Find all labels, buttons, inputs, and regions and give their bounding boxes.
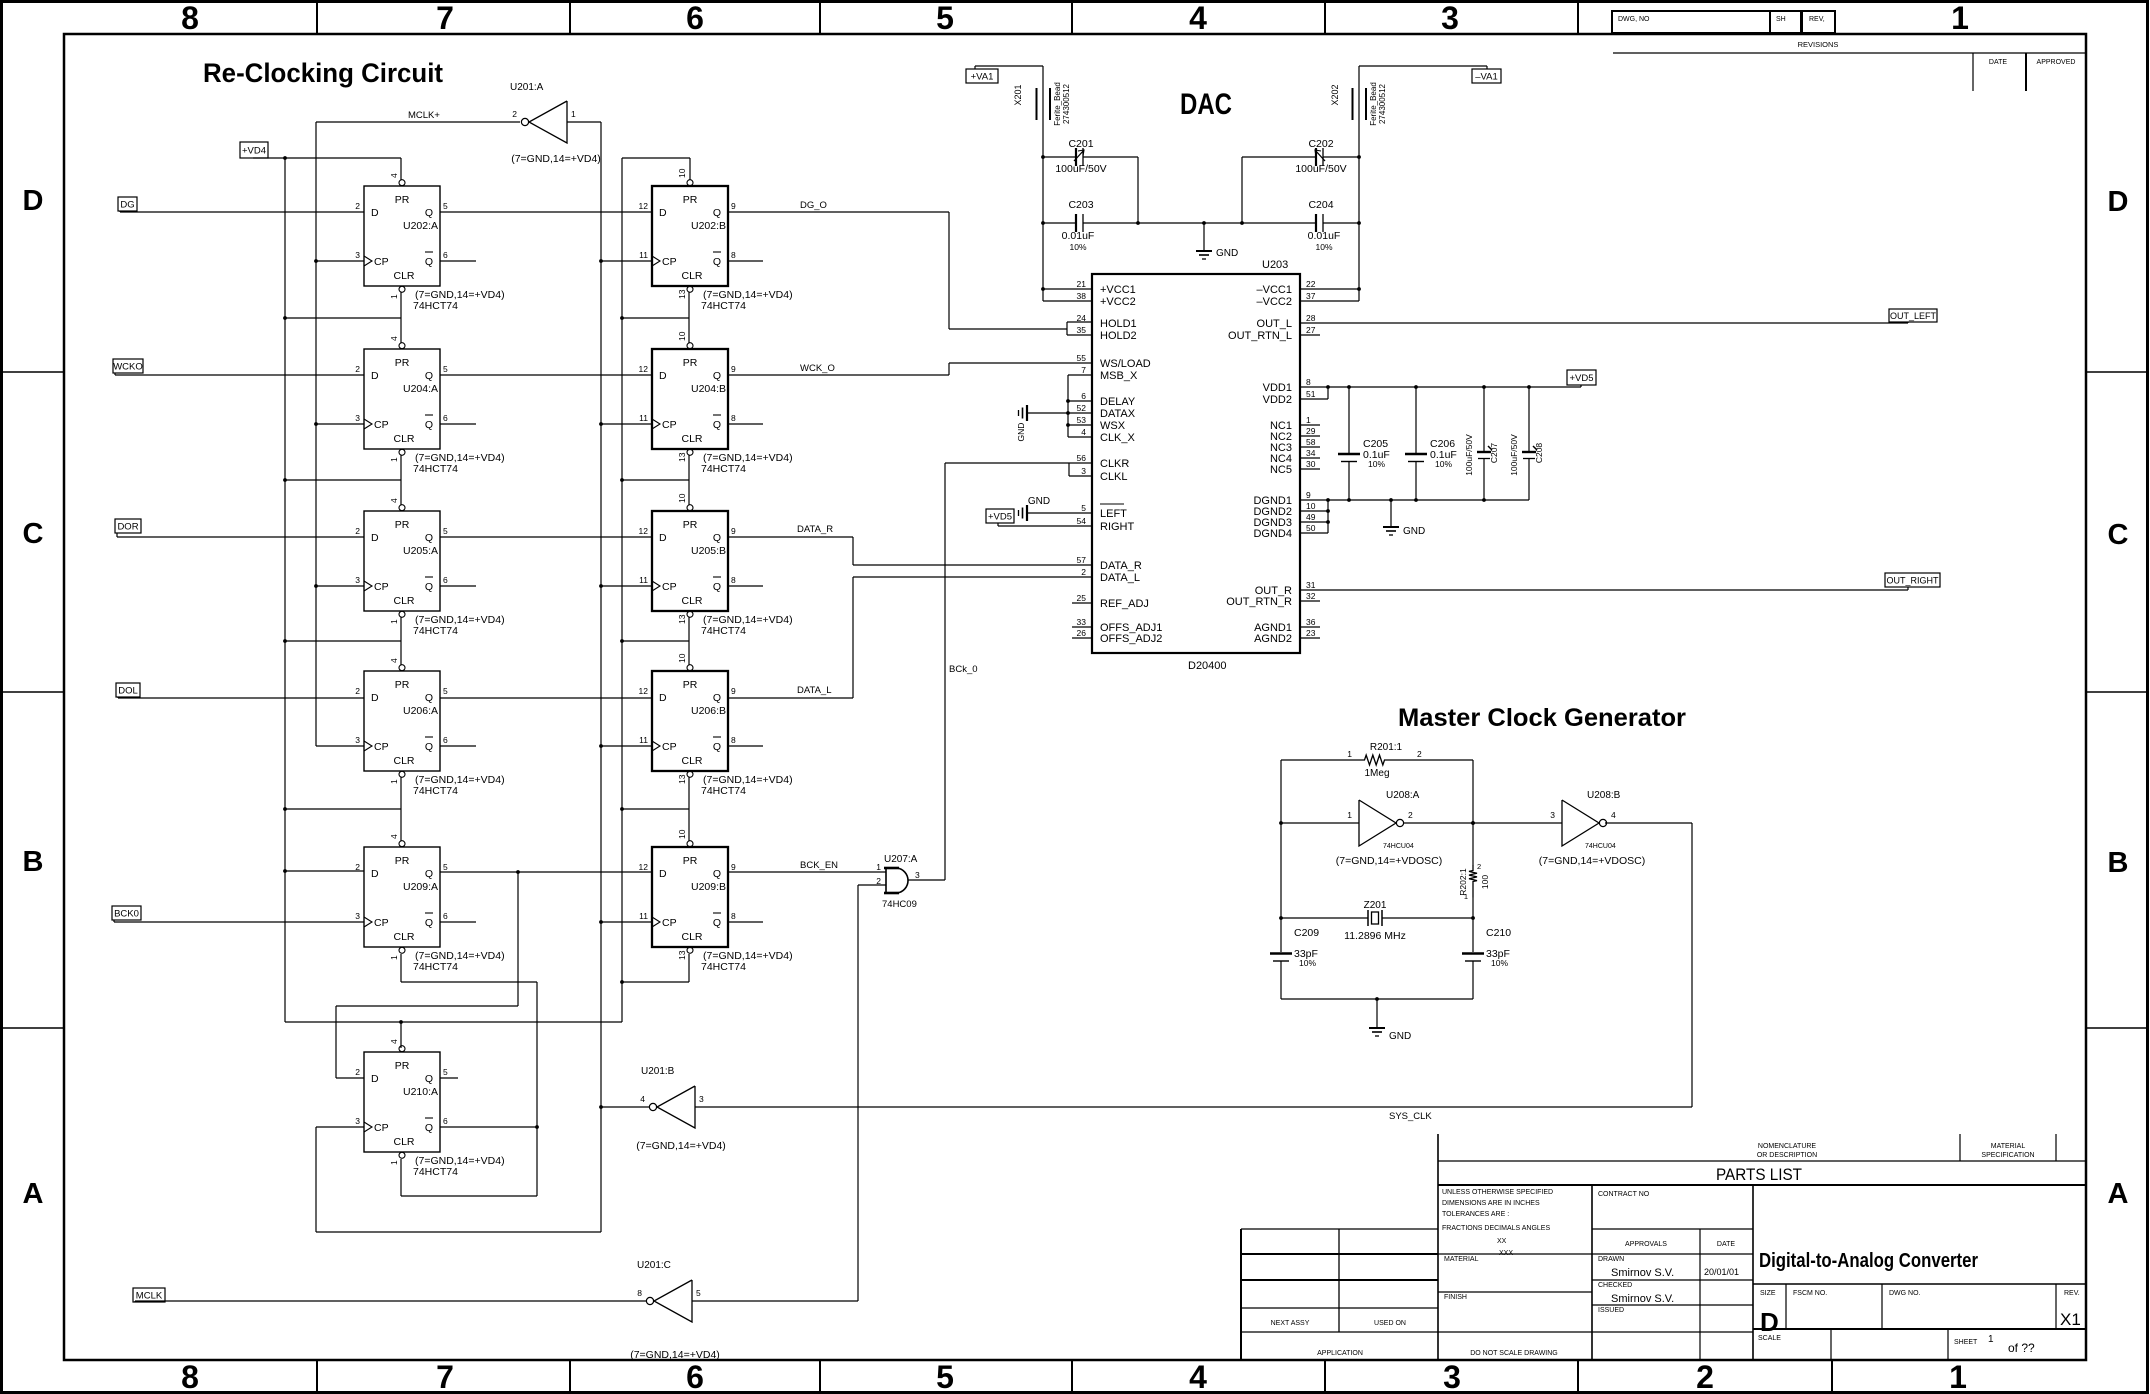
wire U208:B input <box>1473 822 1562 824</box>
svg-text:U201:C: U201:C <box>637 1260 671 1271</box>
svg-text:Q: Q <box>713 868 721 880</box>
zone numbers top <box>181 0 1969 36</box>
ground symbol DAC supply <box>1196 221 1238 259</box>
svg-text:X201: X201 <box>1013 84 1023 105</box>
svg-text:Q: Q <box>425 419 433 431</box>
svg-text:6: 6 <box>443 735 448 745</box>
svg-text:B: B <box>2108 847 2129 879</box>
svg-text:CLR: CLR <box>393 270 414 282</box>
svg-text:U202:B: U202:B <box>691 220 726 232</box>
svg-text:U202:A: U202:A <box>403 220 438 232</box>
svg-text:U210:A: U210:A <box>403 1086 438 1098</box>
svg-text:D: D <box>371 1073 379 1085</box>
svg-text:WS/LOAD: WS/LOAD <box>1100 358 1151 370</box>
svg-text:2: 2 <box>1477 862 1481 871</box>
svg-text:2: 2 <box>355 364 360 374</box>
net name DG_O <box>800 200 827 211</box>
svg-text:HOLD2: HOLD2 <box>1100 330 1137 342</box>
svg-text:11: 11 <box>639 911 648 921</box>
wire R202 to crystal row <box>1471 821 1475 952</box>
svg-text:GND: GND <box>1216 248 1238 259</box>
svg-text:74HCU04: 74HCU04 <box>1383 843 1414 850</box>
svg-text:MCLK: MCLK <box>136 1290 163 1301</box>
resistor R202:1 100 <box>1458 862 1490 901</box>
wire oscillator top loop <box>1281 760 1473 952</box>
flip-flop U202:A 74HCT74 <box>355 173 504 312</box>
svg-text:1Meg: 1Meg <box>1364 768 1389 779</box>
stubs Q-bar column A <box>440 261 476 922</box>
svg-text:Q: Q <box>713 692 721 704</box>
svg-text:10: 10 <box>677 653 687 663</box>
svg-text:Q: Q <box>425 741 433 753</box>
svg-text:Q: Q <box>425 1122 433 1134</box>
DAC U203 D20400 <box>1077 259 1316 672</box>
svg-text:8: 8 <box>637 1288 642 1298</box>
svg-text:Re-Clocking Circuit: Re-Clocking Circuit <box>203 58 443 88</box>
svg-text:PR: PR <box>395 519 410 531</box>
svg-text:DG_O: DG_O <box>800 200 827 211</box>
svg-text:D: D <box>1760 1307 1779 1337</box>
svg-text:5: 5 <box>443 364 448 374</box>
svg-text:Master Clock Generator: Master Clock Generator <box>1398 704 1686 732</box>
svg-text:1: 1 <box>1306 415 1311 425</box>
svg-text:11.2896 MHz: 11.2896 MHz <box>1344 930 1406 942</box>
wire DOR input <box>117 533 364 537</box>
svg-text:13: 13 <box>677 950 687 960</box>
svg-text:5: 5 <box>443 686 448 696</box>
wire PR/CLR chain column B <box>620 158 690 1022</box>
capacitor C203 0.01uF <box>1043 199 1204 252</box>
svg-text:Q: Q <box>425 868 433 880</box>
svg-text:11: 11 <box>639 413 648 423</box>
svg-text:Q: Q <box>425 207 433 219</box>
svg-text:PR: PR <box>683 194 698 206</box>
svg-text:SCALE: SCALE <box>1758 1335 1781 1342</box>
svg-text:5: 5 <box>1081 503 1086 513</box>
svg-text:CLR: CLR <box>393 931 414 943</box>
svg-text:(7=GND,14=+VD4): (7=GND,14=+VD4) <box>511 153 601 165</box>
svg-text:REV.: REV. <box>2064 1290 2080 1297</box>
svg-text:Q: Q <box>713 917 721 929</box>
wire U209:A Q feedback to U210:A D <box>336 872 518 1078</box>
svg-text:A: A <box>23 1178 44 1210</box>
net name MCLK+ <box>408 110 440 121</box>
svg-text:BCK_EN: BCK_EN <box>800 860 838 871</box>
svg-text:C209: C209 <box>1294 927 1319 939</box>
port DOL <box>116 683 140 697</box>
svg-text:DELAY: DELAY <box>1100 396 1136 408</box>
capacitor C207 100uF/50V <box>1464 387 1499 500</box>
power label +VD5 <box>1567 370 1596 385</box>
svg-text:D: D <box>2108 186 2129 218</box>
title Master Clock Generator <box>1398 704 1686 732</box>
svg-text:4: 4 <box>640 1094 645 1104</box>
svg-text:APPLICATION: APPLICATION <box>1317 1350 1363 1357</box>
svg-text:10%: 10% <box>1299 958 1316 968</box>
svg-text:100uF/50V: 100uF/50V <box>1464 434 1474 476</box>
svg-text:PR: PR <box>395 1060 410 1072</box>
svg-text:U203: U203 <box>1262 259 1288 271</box>
resistor R201:1 1Meg <box>1347 742 1422 779</box>
power label +VD4 <box>240 142 268 158</box>
svg-text:9: 9 <box>731 526 736 536</box>
wire oscillator bottom rail <box>1281 997 1473 1001</box>
svg-text:OR DESCRIPTION: OR DESCRIPTION <box>1757 1152 1817 1159</box>
svg-text:DAC: DAC <box>1180 88 1232 121</box>
svg-text:26: 26 <box>1077 628 1087 638</box>
svg-text:+VCC2: +VCC2 <box>1100 296 1136 308</box>
port WCKO <box>113 359 143 373</box>
svg-text:74HCT74: 74HCT74 <box>413 625 458 637</box>
wire U208:A output <box>1404 821 1475 825</box>
svg-text:U208:B: U208:B <box>1587 790 1621 801</box>
svg-text:(7=GND,14=+VDOSC): (7=GND,14=+VDOSC) <box>1336 855 1443 867</box>
svg-text:Z201: Z201 <box>1364 900 1387 911</box>
svg-text:21: 21 <box>1077 279 1087 289</box>
capacitor C204 0.01uF <box>1204 199 1359 252</box>
svg-text:100uF/50V: 100uF/50V <box>1295 163 1346 175</box>
svg-text:30: 30 <box>1306 459 1316 469</box>
svg-text:FINISH: FINISH <box>1444 1294 1467 1301</box>
svg-text:U206:A: U206:A <box>403 705 438 717</box>
svg-text:8: 8 <box>731 735 736 745</box>
svg-text:74HCT74: 74HCT74 <box>701 625 746 637</box>
svg-text:8: 8 <box>181 1359 199 1394</box>
svg-text:OFFS_ADJ2: OFFS_ADJ2 <box>1100 633 1162 645</box>
title Re-Clocking Circuit <box>203 58 443 88</box>
svg-text:ISSUED: ISSUED <box>1598 1307 1624 1314</box>
svg-text:DATE: DATE <box>1717 1241 1735 1248</box>
svg-text:CP: CP <box>374 917 389 929</box>
svg-text:2: 2 <box>1081 567 1086 577</box>
svg-text:4: 4 <box>389 173 399 178</box>
svg-text:7: 7 <box>436 1359 454 1394</box>
svg-text:8: 8 <box>731 413 736 423</box>
svg-text:74HCU04: 74HCU04 <box>1585 843 1616 850</box>
svg-text:2: 2 <box>1408 810 1413 820</box>
wire U207:A pin2 from U201:C <box>692 885 886 1301</box>
svg-text:74HCT74: 74HCT74 <box>413 1166 458 1178</box>
svg-text:PR: PR <box>683 519 698 531</box>
svg-text:3: 3 <box>1550 810 1555 820</box>
wire U208:A input <box>1279 821 1359 825</box>
svg-text:11: 11 <box>639 575 648 585</box>
svg-text:6: 6 <box>686 0 704 36</box>
port DOR <box>115 519 141 533</box>
zone ticks right <box>2086 372 2148 1028</box>
svg-text:Q: Q <box>425 370 433 382</box>
svg-text:38: 38 <box>1077 291 1087 301</box>
svg-text:U208:A: U208:A <box>1386 790 1420 801</box>
svg-text:10: 10 <box>677 493 687 503</box>
svg-text:D: D <box>659 868 667 880</box>
svg-text:28: 28 <box>1306 313 1316 323</box>
svg-text:A: A <box>2108 1178 2129 1210</box>
svg-text:74HCT74: 74HCT74 <box>701 961 746 973</box>
svg-text:UNLESS OTHERWISE SPECIFIED: UNLESS OTHERWISE SPECIFIED <box>1442 1189 1553 1196</box>
wire +VCC1 +VCC2 bracket <box>1041 287 1092 301</box>
svg-text:1: 1 <box>1988 1334 1994 1345</box>
svg-text:CHECKED: CHECKED <box>1598 1282 1632 1289</box>
svg-text:20/01/01: 20/01/01 <box>1704 1267 1739 1277</box>
svg-text:U209:B: U209:B <box>691 881 726 893</box>
svg-text:3: 3 <box>355 1116 360 1126</box>
svg-text:Smirnov S.V.: Smirnov S.V. <box>1611 1267 1674 1279</box>
svg-text:DATA_L: DATA_L <box>797 685 832 696</box>
ferrite bead X202 <box>1330 82 1387 126</box>
svg-text:D: D <box>371 207 379 219</box>
svg-text:3: 3 <box>915 870 920 880</box>
svg-text:13: 13 <box>677 614 687 624</box>
svg-text:CP: CP <box>374 741 389 753</box>
svg-text:AGND2: AGND2 <box>1254 633 1292 645</box>
power label -VA1 <box>1472 69 1501 83</box>
wire OUT_L to OUT_LEFT <box>1300 322 1908 323</box>
svg-text:CLR: CLR <box>393 433 414 445</box>
svg-text:6: 6 <box>443 250 448 260</box>
svg-text:+VA1: +VA1 <box>971 71 994 82</box>
svg-text:DRAWN: DRAWN <box>1598 1256 1624 1263</box>
svg-text:Q: Q <box>425 692 433 704</box>
inverter U201:B <box>636 1066 726 1152</box>
svg-text:3: 3 <box>1441 0 1459 36</box>
inverter U201:A 74HCT74 <box>510 82 601 165</box>
wire U201:A input to CP bus B <box>316 122 652 1232</box>
svg-text:2: 2 <box>355 201 360 211</box>
svg-text:DIMENSIONS ARE IN INCHES: DIMENSIONS ARE IN INCHES <box>1442 1200 1540 1207</box>
svg-text:NC5: NC5 <box>1270 464 1292 476</box>
wire C201 to C203 corner <box>1137 157 1139 223</box>
title block drawing title <box>1759 1250 1978 1272</box>
wire U209:A Q to U209:B D <box>440 870 652 874</box>
wire MSB_X DELAY DATAX WSX CLK_X bracket <box>1066 375 1092 437</box>
inverter U208:A 74HCU04 <box>1336 790 1443 867</box>
ground symbol oscillator <box>1369 999 1411 1042</box>
svg-text:D: D <box>371 868 379 880</box>
svg-text:13: 13 <box>677 452 687 462</box>
svg-text:13: 13 <box>677 774 687 784</box>
svg-text:BCK0: BCK0 <box>114 908 139 919</box>
svg-text:32: 32 <box>1306 591 1316 601</box>
svg-text:+VD5: +VD5 <box>1569 373 1593 384</box>
svg-text:37: 37 <box>1306 291 1316 301</box>
svg-text:+VCC1: +VCC1 <box>1100 284 1136 296</box>
svg-text:3: 3 <box>1443 1359 1461 1394</box>
svg-text:CP: CP <box>374 256 389 268</box>
svg-text:FRACTIONS DECIMALS ANGLES: FRACTIONS DECIMALS ANGLES <box>1442 1225 1550 1232</box>
svg-text:GND: GND <box>1389 1031 1411 1042</box>
svg-text:U204:B: U204:B <box>691 383 726 395</box>
svg-text:74HCT74: 74HCT74 <box>701 463 746 475</box>
svg-text:X202: X202 <box>1330 84 1340 105</box>
flip-flop U202:B 74HCT74 <box>639 168 793 312</box>
svg-text:2: 2 <box>512 109 517 119</box>
svg-text:1: 1 <box>389 1160 399 1165</box>
stubs REF_ADJ OFFS_ADJ <box>1072 603 1092 638</box>
svg-text:REF_ADJ: REF_ADJ <box>1100 598 1149 610</box>
svg-text:6: 6 <box>443 911 448 921</box>
port OUT_RIGHT <box>1885 573 1940 587</box>
svg-text:49: 49 <box>1306 512 1316 522</box>
AND gate U207:A 74HC09 <box>876 854 920 910</box>
svg-text:REVISIONS: REVISIONS <box>1798 40 1839 49</box>
svg-text:C202: C202 <box>1308 138 1333 150</box>
svg-text:PR: PR <box>395 855 410 867</box>
svg-text:29: 29 <box>1306 426 1316 436</box>
ground symbol DGND <box>1383 500 1425 537</box>
svg-text:22: 22 <box>1306 279 1316 289</box>
svg-text:U205:A: U205:A <box>403 545 438 557</box>
svg-text:Q: Q <box>425 581 433 593</box>
svg-text:1: 1 <box>1949 1359 1967 1394</box>
svg-text:+VD4: +VD4 <box>242 145 266 156</box>
svg-text:6: 6 <box>686 1359 704 1394</box>
svg-text:4: 4 <box>1189 1359 1207 1394</box>
svg-text:12: 12 <box>639 526 649 536</box>
wire DATA_L <box>728 577 1092 698</box>
svg-text:0.01uF: 0.01uF <box>1062 230 1095 242</box>
svg-text:CP: CP <box>662 917 677 929</box>
svg-text:5: 5 <box>443 526 448 536</box>
svg-text:7: 7 <box>436 0 454 36</box>
svg-text:VDD1: VDD1 <box>1263 382 1292 394</box>
svg-text:–VCC2: –VCC2 <box>1257 296 1292 308</box>
svg-text:DO NOT SCALE DRAWING: DO NOT SCALE DRAWING <box>1470 1350 1558 1357</box>
svg-text:1: 1 <box>1347 749 1352 759</box>
svg-text:1: 1 <box>389 955 399 960</box>
svg-text:C207: C207 <box>1489 443 1499 464</box>
svg-text:R201:1: R201:1 <box>1370 742 1403 753</box>
svg-text:10: 10 <box>677 331 687 341</box>
title block <box>1241 1134 2086 1360</box>
svg-text:OUT_L: OUT_L <box>1257 318 1292 330</box>
svg-text:VDD2: VDD2 <box>1263 394 1292 406</box>
zone letters left <box>23 185 44 1210</box>
port OUT_LEFT <box>1889 309 1937 322</box>
wire WCK_O <box>728 363 1092 375</box>
svg-text:9: 9 <box>731 364 736 374</box>
svg-text:DATAX: DATAX <box>1100 408 1136 420</box>
svg-text:4: 4 <box>389 834 399 839</box>
svg-text:SIZE: SIZE <box>1760 1290 1776 1297</box>
wire DATA_R <box>728 537 1092 565</box>
svg-text:D: D <box>659 207 667 219</box>
svg-text:CLK_X: CLK_X <box>1100 432 1136 444</box>
port BCK0 <box>112 906 141 920</box>
svg-text:7: 7 <box>1081 365 1086 375</box>
wire -VA1 to bead X202 <box>1357 66 1487 289</box>
wire Q to D row 2 <box>440 374 652 376</box>
svg-text:27: 27 <box>1306 325 1316 335</box>
flip-flop U204:A 74HCT74 <box>355 336 504 475</box>
capacitor C205 0.1uF <box>1338 387 1390 500</box>
svg-text:–VCC1: –VCC1 <box>1257 284 1292 296</box>
title block scale sheet row <box>1753 1329 2086 1360</box>
net name SYS_CLK <box>1389 1111 1432 1122</box>
svg-text:SHEET: SHEET <box>1954 1339 1978 1346</box>
svg-text:XX: XX <box>1497 1238 1507 1245</box>
svg-text:3: 3 <box>355 911 360 921</box>
svg-text:5: 5 <box>443 862 448 872</box>
wire DG_O <box>728 212 1092 335</box>
svg-text:GND: GND <box>1028 496 1050 507</box>
wire DG input <box>120 211 364 212</box>
drawing number box <box>1612 11 1770 33</box>
svg-text:35: 35 <box>1077 325 1087 335</box>
svg-text:10%: 10% <box>1368 459 1385 469</box>
stubs NC pins <box>1300 425 1320 469</box>
wire WCKO input <box>115 373 364 375</box>
svg-text:3: 3 <box>1081 466 1086 476</box>
ground symbol DATAX <box>1016 405 1068 441</box>
wire DGND rail <box>1300 498 1529 533</box>
svg-text:11: 11 <box>639 250 648 260</box>
wire Q to D row 3 <box>440 536 652 538</box>
svg-text:U209:A: U209:A <box>403 881 438 893</box>
svg-text:CP: CP <box>662 256 677 268</box>
stub OUT_RTN_L <box>1300 334 1320 336</box>
svg-text:33: 33 <box>1077 617 1087 627</box>
svg-text:Q: Q <box>713 741 721 753</box>
svg-text:MATERIAL: MATERIAL <box>1991 1143 2026 1150</box>
svg-text:Q: Q <box>713 581 721 593</box>
svg-text:CP: CP <box>662 419 677 431</box>
svg-text:Smirnov S.V.: Smirnov S.V. <box>1611 1293 1674 1305</box>
svg-text:PR: PR <box>683 855 698 867</box>
svg-text:FSCM NO.: FSCM NO. <box>1793 1290 1827 1297</box>
svg-text:74HCT74: 74HCT74 <box>701 300 746 312</box>
svg-text:D: D <box>23 185 44 217</box>
power label +VD5 at RIGHT pin <box>986 509 1092 526</box>
svg-text:1: 1 <box>389 619 399 624</box>
svg-text:1: 1 <box>876 862 881 872</box>
wire -VCC1 -VCC2 bracket <box>1300 287 1361 301</box>
svg-text:58: 58 <box>1306 437 1316 447</box>
svg-text:10: 10 <box>677 168 687 178</box>
svg-text:6: 6 <box>1081 391 1086 401</box>
svg-text:4: 4 <box>389 498 399 503</box>
svg-text:DWG NO.: DWG NO. <box>1889 1290 1921 1297</box>
flip-flop U210:A 74HCT74 <box>355 1039 504 1178</box>
svg-text:8: 8 <box>181 0 199 36</box>
svg-text:6: 6 <box>443 575 448 585</box>
svg-text:REV,: REV, <box>1809 16 1825 23</box>
svg-text:PR: PR <box>395 679 410 691</box>
svg-text:74HC09: 74HC09 <box>882 899 917 910</box>
svg-text:OUT_RIGHT: OUT_RIGHT <box>1886 575 1939 585</box>
svg-text:+VD5: +VD5 <box>988 511 1012 522</box>
svg-text:USED ON: USED ON <box>1374 1320 1406 1327</box>
svg-text:12: 12 <box>639 862 649 872</box>
svg-text:Q: Q <box>713 207 721 219</box>
svg-text:100uF/50V: 100uF/50V <box>1509 434 1519 476</box>
svg-text:9: 9 <box>731 862 736 872</box>
svg-text:APPROVALS: APPROVALS <box>1625 1241 1667 1248</box>
ferrite bead X201 <box>1013 82 1071 126</box>
svg-text:74HCT74: 74HCT74 <box>413 785 458 797</box>
svg-text:DOL: DOL <box>118 685 138 696</box>
svg-text:DATA_L: DATA_L <box>1100 572 1140 584</box>
ground symbol LEFT pin <box>1019 496 1093 521</box>
svg-text:23: 23 <box>1306 628 1316 638</box>
wire +VA1 to bead X201 <box>975 66 1045 289</box>
svg-text:274300512: 274300512 <box>1062 83 1071 124</box>
net name DATA_R <box>797 524 833 535</box>
capacitor C209 33pF <box>1270 927 1319 999</box>
svg-text:0.01uF: 0.01uF <box>1308 230 1341 242</box>
svg-text:10%: 10% <box>1315 242 1332 252</box>
title DAC <box>1180 88 1232 121</box>
